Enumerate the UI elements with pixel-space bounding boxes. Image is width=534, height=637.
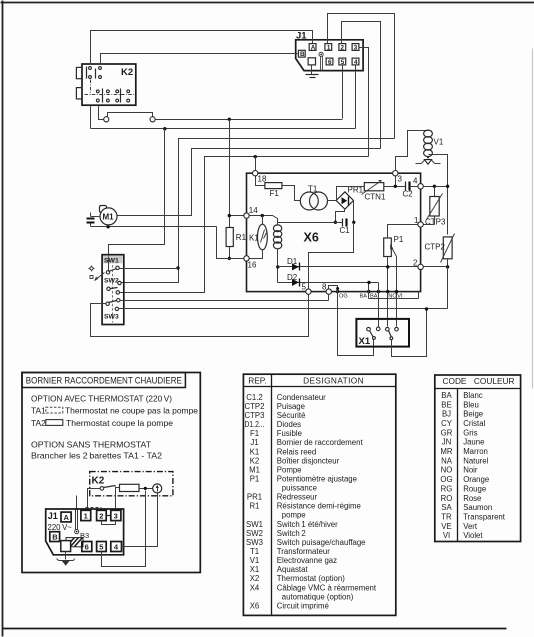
svg-text:BORNIER RACCORDEMENT CHAUDIERE: BORNIER RACCORDEMENT CHAUDIERE — [26, 376, 182, 386]
svg-text:SA: SA — [441, 503, 452, 512]
svg-text:BA: BA — [360, 293, 368, 299]
svg-text:NA: NA — [441, 456, 453, 465]
svg-text:Vert: Vert — [463, 522, 478, 531]
svg-text:F1: F1 — [270, 189, 280, 198]
svg-text:Thermostat ne coupe pas la pom: Thermostat ne coupe pas la pompe — [65, 406, 198, 416]
svg-text:OPTION AVEC THERMOSTAT (220 V): OPTION AVEC THERMOSTAT (220 V) — [31, 394, 172, 404]
svg-text:Orange: Orange — [463, 475, 489, 484]
svg-text:BJ: BJ — [442, 410, 451, 419]
svg-text:Bornier de raccordement: Bornier de raccordement — [277, 438, 364, 447]
svg-text:Pompe: Pompe — [277, 465, 302, 474]
svg-text:Thermostat (option): Thermostat (option) — [277, 574, 345, 583]
svg-text:18: 18 — [258, 175, 267, 184]
svg-text:3: 3 — [398, 175, 403, 184]
svg-text:SW3: SW3 — [246, 538, 263, 547]
svg-text:CTP3: CTP3 — [425, 218, 446, 227]
svg-text:B: B — [52, 532, 58, 541]
svg-text:automatique (option): automatique (option) — [282, 592, 354, 601]
svg-text:Gris: Gris — [463, 428, 477, 437]
svg-text:P1: P1 — [394, 235, 404, 244]
svg-text:NO: NO — [441, 466, 453, 475]
svg-text:2: 2 — [413, 259, 418, 268]
svg-text:T1: T1 — [250, 547, 259, 556]
svg-text:Transparent: Transparent — [463, 513, 506, 522]
svg-text:PR1: PR1 — [247, 493, 262, 502]
svg-text:A: A — [311, 44, 316, 51]
svg-text:C2: C2 — [403, 190, 414, 199]
svg-text:OPTION SANS THERMOSTAT: OPTION SANS THERMOSTAT — [31, 440, 151, 450]
svg-text:SW2: SW2 — [246, 529, 263, 538]
svg-text:CY: CY — [441, 419, 453, 428]
svg-text:CTN1: CTN1 — [365, 193, 386, 202]
svg-text:K2: K2 — [92, 476, 105, 487]
svg-text:pompe: pompe — [282, 511, 306, 520]
svg-text:Redresseur: Redresseur — [277, 493, 318, 502]
svg-text:K1: K1 — [250, 447, 260, 456]
svg-text:Blanc: Blanc — [463, 391, 483, 400]
svg-text:F1: F1 — [250, 429, 259, 438]
svg-text:V1: V1 — [250, 556, 260, 565]
svg-text:V1: V1 — [434, 138, 444, 147]
svg-text:CODE: CODE — [443, 376, 467, 386]
svg-text:R1: R1 — [236, 233, 247, 242]
svg-text:Câblage VMC à réarmement: Câblage VMC à réarmement — [277, 583, 377, 592]
svg-text:BE: BE — [441, 400, 451, 409]
svg-text:1: 1 — [327, 44, 331, 51]
svg-text:6: 6 — [328, 59, 332, 66]
svg-text:P1: P1 — [250, 475, 260, 484]
svg-text:C1: C1 — [340, 226, 351, 235]
svg-text:B: B — [300, 51, 305, 58]
svg-text:Switch puisage/chauffage: Switch puisage/chauffage — [277, 538, 366, 547]
svg-text:Beige: Beige — [463, 410, 483, 419]
svg-text:2: 2 — [341, 44, 345, 51]
svg-text:Diodes: Diodes — [277, 420, 301, 429]
svg-text:Puisage: Puisage — [277, 402, 305, 411]
svg-text:X6: X6 — [304, 231, 319, 245]
svg-text:RG: RG — [441, 484, 453, 493]
svg-text:K1: K1 — [249, 234, 259, 243]
svg-text:VE: VE — [441, 522, 451, 531]
svg-text:Switch 2: Switch 2 — [277, 529, 306, 538]
svg-text:A: A — [64, 513, 70, 522]
svg-text:Aquastat: Aquastat — [277, 565, 309, 574]
svg-text:2: 2 — [99, 511, 103, 520]
svg-text:Fusible: Fusible — [277, 429, 302, 438]
svg-text:14: 14 — [249, 206, 258, 215]
svg-text:Saumon: Saumon — [463, 503, 492, 512]
svg-text:VI: VI — [443, 531, 450, 540]
svg-text:SW2: SW2 — [104, 277, 119, 284]
svg-text:puissance: puissance — [282, 484, 317, 493]
svg-text:CTP3: CTP3 — [245, 411, 265, 420]
svg-text:J1: J1 — [250, 438, 258, 447]
svg-text:Rose: Rose — [463, 494, 481, 503]
svg-text:T1: T1 — [308, 185, 318, 194]
svg-text:D1.2...: D1.2... — [245, 420, 265, 429]
svg-text:CTP2: CTP2 — [245, 402, 265, 411]
svg-text:TR: TR — [441, 513, 452, 522]
svg-text:SW1: SW1 — [104, 258, 119, 265]
svg-text:J1: J1 — [48, 511, 58, 521]
svg-text:Switch 1 été/hiver: Switch 1 été/hiver — [277, 520, 338, 529]
svg-text:JN: JN — [442, 438, 452, 447]
svg-text:Sécurité: Sécurité — [277, 411, 306, 420]
svg-text:X2: X2 — [250, 574, 260, 583]
svg-text:R1: R1 — [250, 502, 260, 511]
svg-text:Naturel: Naturel — [463, 456, 488, 465]
svg-text:3: 3 — [114, 511, 118, 520]
svg-text:K2: K2 — [121, 67, 133, 78]
svg-text:1: 1 — [414, 216, 419, 225]
svg-text:Transformateur: Transformateur — [277, 547, 330, 556]
svg-text:Violet: Violet — [463, 531, 483, 540]
svg-text:5: 5 — [99, 542, 103, 551]
svg-text:Brancher les 2 barettes TA1 -: Brancher les 2 barettes TA1 - TA2 — [31, 451, 162, 461]
svg-text:SW3: SW3 — [104, 313, 119, 320]
svg-text:X4: X4 — [250, 583, 260, 592]
svg-text:8: 8 — [322, 283, 327, 292]
svg-text:RO: RO — [441, 494, 453, 503]
svg-text:X1: X1 — [250, 565, 260, 574]
svg-text:TA1: TA1 — [31, 406, 46, 416]
svg-text:Thermostat coupe la pompe: Thermostat coupe la pompe — [66, 418, 173, 428]
svg-text:Boîtier disjoncteur: Boîtier disjoncteur — [277, 456, 340, 465]
svg-text:Cristal: Cristal — [463, 419, 485, 428]
svg-text:Potentiomètre ajustage: Potentiomètre ajustage — [277, 475, 357, 484]
svg-text:K2: K2 — [250, 456, 260, 465]
svg-text:Noir: Noir — [463, 466, 478, 475]
svg-text:M1: M1 — [103, 213, 115, 222]
svg-text:Résistance demi-régime: Résistance demi-régime — [277, 502, 361, 511]
svg-text:Electrovanne gaz: Electrovanne gaz — [277, 556, 337, 565]
svg-text:M1: M1 — [249, 465, 260, 474]
svg-text:CTP2: CTP2 — [425, 243, 446, 252]
svg-text:Relais reed: Relais reed — [277, 447, 316, 456]
svg-text:1: 1 — [84, 511, 88, 520]
svg-text:Bleu: Bleu — [463, 400, 479, 409]
svg-text:X6: X6 — [250, 601, 260, 610]
svg-text:Circuit imprimé: Circuit imprimé — [277, 601, 329, 610]
svg-text:OG: OG — [440, 475, 452, 484]
svg-text:VI: VI — [397, 293, 403, 299]
svg-text:X1: X1 — [359, 336, 371, 347]
svg-text:Jaune: Jaune — [463, 438, 484, 447]
svg-text:COULEUR: COULEUR — [474, 376, 515, 386]
svg-text:OG: OG — [339, 293, 348, 299]
svg-text:16: 16 — [248, 261, 257, 270]
svg-text:REP.: REP. — [248, 376, 266, 386]
svg-text:5: 5 — [302, 283, 307, 292]
svg-text:GR: GR — [441, 428, 453, 437]
svg-text:DESIGNATION: DESIGNATION — [303, 376, 364, 386]
svg-text:4: 4 — [413, 177, 418, 186]
svg-text:TA2: TA2 — [31, 418, 46, 428]
svg-text:6: 6 — [85, 542, 89, 551]
svg-text:MR: MR — [440, 447, 452, 456]
svg-text:BA: BA — [370, 293, 378, 299]
svg-text:Rouge: Rouge — [463, 484, 486, 493]
svg-text:BA: BA — [441, 391, 452, 400]
svg-text:3: 3 — [354, 44, 358, 51]
svg-text:C1.2: C1.2 — [246, 393, 262, 402]
svg-text:SW1: SW1 — [246, 520, 263, 529]
svg-text:NO: NO — [388, 293, 397, 299]
svg-text:Condensateur: Condensateur — [277, 393, 326, 402]
svg-text:Marron: Marron — [463, 447, 488, 456]
